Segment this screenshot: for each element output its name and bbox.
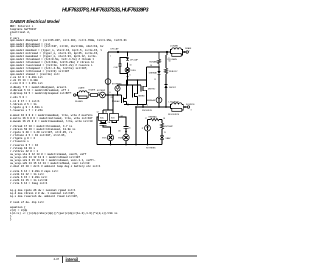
svg-text:9: 9 (89, 93, 90, 95)
svg-text:c.cin 6 8 = 1.05n isl: c.cin 6 8 = 1.05n isl (10, 81, 43, 85)
label EBREAK (147, 99, 156, 102)
diode DPLCAP (126, 58, 129, 61)
svg-text:17: 17 (145, 118, 147, 120)
wire bottom rail (97, 144, 162, 146)
label EGS (102, 138, 107, 140)
svg-text:16: 16 (150, 65, 152, 67)
label MMED (139, 95, 146, 97)
wire node16 to rdrain (147, 65, 160, 67)
svg-text:18: 18 (163, 118, 165, 120)
svg-text:EDS: EDS (118, 138, 123, 140)
svg-text:EBREAK: EBREAK (147, 99, 156, 102)
svg-text:DBODY: DBODY (169, 87, 177, 89)
label RVTEMP (165, 126, 174, 128)
label ESG (132, 70, 137, 72)
footer bar (62, 256, 64, 263)
svg-text:DPLCAP: DPLCAP (111, 48, 120, 51)
svg-text:RBREAK: RBREAK (149, 115, 158, 118)
diode DBREAK (157, 71, 160, 97)
svg-text:2: 2 (189, 51, 190, 53)
svg-text:10: 10 (130, 65, 132, 67)
wire S1B to CB (112, 117, 126, 127)
svg-text:11: 11 (154, 79, 156, 81)
op source ESG circle on left rail (105, 79, 111, 85)
svg-text:RVTEMP: RVTEMP (165, 126, 174, 128)
intersil logo (66, 257, 81, 262)
svg-text:spm.model dplcapmod = (isl=10f: spm.model dplcapmod = (isl=10f, nl=10, i… (10, 44, 104, 48)
node 5 junction dot (117, 51, 119, 53)
wire (165, 74, 167, 85)
label CGDMAX (114, 67, 119, 69)
svg-text:intersil: intersil (66, 257, 79, 262)
wire gate bus node6 upper (118, 84, 142, 86)
battery VBAT (160, 135, 164, 145)
node 15 (118, 128, 131, 133)
label LSOURCE (169, 101, 180, 103)
svg-text:1: 1 (110, 56, 111, 58)
wire node 7 rail (135, 106, 170, 108)
label RDBODY (169, 71, 178, 73)
switch S1A box (99, 114, 108, 121)
node 5 text (169, 58, 171, 63)
switch network: tee (103, 95, 113, 114)
svg-text:6: 6 (130, 75, 131, 77)
svg-text:15: 15 (129, 128, 131, 130)
diode DBODY (164, 85, 167, 108)
wire (98, 93, 100, 95)
svg-text:c.cds 5 8 =: c.cds 5 8 = (10, 95, 28, 99)
label VBAT (166, 137, 172, 140)
junction node 6 on branch (127, 75, 131, 78)
svg-text:RDRAIN: RDRAIN (149, 61, 157, 64)
svg-text:12: 12 (97, 112, 99, 114)
mosfet MSTRO (141, 67, 147, 105)
svg-text:r.rs1a 6 12 = 1meg isl=1: r.rs1a 6 12 = 1meg isl=1 (10, 181, 48, 185)
resistor RVTEMP (160, 120, 163, 135)
mosfet MMED (133, 80, 138, 105)
inductor LDRAIN / resistor RLDRAIN parallel (167, 48, 188, 57)
label DPLCAP (top) (111, 48, 120, 51)
svg-text:EGS: EGS (102, 138, 107, 140)
svg-text:ESG: ESG (132, 70, 137, 72)
label SOURCE terminal (186, 104, 195, 112)
dep source EBREAK circle (156, 97, 162, 107)
label RBREAK (149, 115, 158, 118)
svg-text:MSTRO: MSTRO (148, 88, 156, 90)
breakdown loop: top wire + resistor RBREAK (148, 118, 163, 120)
wire jog to node7 rail (142, 105, 144, 108)
wire dplcap branch (127, 51, 129, 85)
svg-text:SOURCE: SOURCE (186, 104, 195, 106)
svg-text:CGD: CGD (114, 67, 119, 69)
svg-text:21: 21 (111, 97, 113, 99)
svg-text:GATE: GATE (66, 92, 72, 95)
label RLGATE (75, 100, 84, 103)
svg-text:l.lsource s 7 = 2.24n: l.lsource s 7 = 2.24n (10, 108, 43, 112)
svg-text:L SOURCE: L SOURCE (169, 101, 180, 103)
svg-text:# isub of dw- dvp isl=: # isub of dw- dvp isl= (10, 200, 45, 204)
label MWEAK (111, 97, 121, 103)
svg-text:MMED: MMED (139, 95, 146, 97)
svg-text:LGATE: LGATE (78, 87, 85, 90)
label RVTHRES (146, 147, 156, 149)
svg-text:RSOURCE: RSOURCE (142, 110, 153, 112)
node 11 (154, 79, 156, 81)
svg-text:RLGATE: RLGATE (75, 100, 84, 103)
label DBODY (169, 87, 177, 89)
svg-text:L DRAIN: L DRAIN (170, 45, 178, 48)
resistor RDBODY zigzag (164, 68, 167, 74)
svg-text:HUF76337P3, HUF76337S3S, HUF76: HUF76337P3, HUF76337S3S, HUF76339P3 (62, 7, 149, 13)
current source IT (145, 120, 151, 145)
svg-text:spm.model dbodymod = (isl=65.8: spm.model dbodymod = (isl=65.82f, nl=1.2… (10, 38, 127, 42)
svg-text:r.rlsource s: r.rlsource s (10, 139, 29, 143)
inductor LGATE / resistor RLGATE parallel (78, 91, 89, 99)
svg-text:RDBODY: RDBODY (169, 71, 178, 73)
capacitor CA (100, 124, 111, 135)
svg-text:DPLCAP: DPLCAP (130, 59, 139, 62)
label EDS (118, 138, 123, 140)
label EVTEMP (97, 90, 106, 92)
svg-text:13: 13 (105, 112, 107, 114)
svg-text:electrical d,: electrical d, (10, 30, 30, 34)
label LGATE (78, 87, 85, 90)
svg-text:i(d->s) += ((v(dp)/abs(v(dp))): i(d->s) += ((v(dp)/abs(v(dp)))*(pwr(v(dp… (10, 211, 118, 215)
svg-text:6: 6 (110, 92, 111, 94)
svg-text:4-47: 4-47 (54, 257, 60, 261)
svg-text:d.dplcap 10 5 = model=dplcapmo: d.dplcap 10 5 = model=dplcapmod isl=1 (10, 91, 68, 95)
node labels 12 13 (97, 112, 123, 118)
page number (54, 257, 60, 261)
label DPLCAP diode (130, 59, 139, 62)
wire left rail (107, 52, 109, 110)
resistor RDRAIN zigzag (157, 52, 160, 67)
label DRAIN terminal (185, 47, 192, 53)
svg-text:VBAT: VBAT (166, 137, 172, 140)
wire left leg (97, 117, 99, 145)
svg-text:RLSOURCE: RLSOURCE (168, 114, 180, 116)
svg-text:m.mweak 16 21 8 8 = model=mwea: m.mweak 16 21 8 8 = model=mweakmod, l=1u… (10, 119, 93, 123)
wire mid drop (135, 107, 137, 145)
capacitor CGDMAX loop (119, 58, 128, 74)
wire source bus node 8 (124, 104, 147, 106)
label RLSOURCE (168, 114, 180, 116)
svg-text:RVTHRES: RVTHRES (146, 147, 156, 149)
inductor LSOURCE / resistor RLSOURCE parallel (171, 103, 190, 112)
label DBREAK (149, 72, 158, 75)
label IT (142, 128, 145, 130)
node 1 label (110, 56, 111, 58)
label MSTRO (148, 88, 156, 90)
wire below S1A to CA (101, 121, 106, 124)
dep source EVTHRES circle (115, 85, 120, 95)
dep source EVTEMP circle (100, 92, 106, 98)
wire gate lead (76, 94, 78, 96)
svg-text:EVTEMP: EVTEMP (97, 90, 106, 92)
node 19 (164, 132, 166, 134)
svg-text:iq.s dea rsourceh dw- ambient: iq.s dea rsourceh dw- ambient rload isl=… (10, 194, 79, 198)
wire top rail node 5 (108, 51, 167, 53)
mosfet MWEAK (122, 80, 127, 105)
node 17 18 (145, 118, 165, 120)
gate terminal (66, 92, 76, 97)
svg-text:7: 7 (147, 105, 148, 107)
svg-text:v.vbat 22 19 = dc=1 # ambient: v.vbat 22 19 = dc=1 # ambient temp deg c… (10, 164, 101, 168)
svg-text:RL DRAIN: RL DRAIN (168, 58, 178, 61)
dep source EGS circle (107, 134, 113, 144)
label RGATE (89, 89, 96, 92)
svg-text:DBREAK: DBREAK (149, 72, 158, 75)
dep source ESG circle (125, 68, 130, 73)
label EVTHRES (112, 83, 122, 85)
label RDRAIN (149, 61, 157, 64)
label RSOURCE (142, 105, 153, 112)
wire right rail (166, 51, 168, 68)
footer rule (16, 255, 197, 257)
svg-text:RGATE: RGATE (89, 89, 96, 92)
capacitor CB (124, 127, 129, 135)
label CA (108, 121, 111, 124)
wire drain bus node 16 (127, 79, 147, 81)
svg-text:SABER Electrical Model: SABER Electrical Model (10, 19, 60, 24)
resistor RGATE (91, 94, 98, 97)
dep source EDS circle (123, 134, 129, 144)
label RLDRAIN (168, 58, 178, 61)
label LDRAIN (170, 45, 178, 48)
wire gate bus to rail (105, 94, 121, 96)
wire (89, 93, 91, 95)
switch S1B box (110, 114, 119, 121)
svg-text:3: 3 (191, 110, 192, 112)
node 10 (130, 65, 132, 67)
wire (158, 66, 160, 71)
node 6 label (110, 92, 111, 94)
svg-text:19: 19 (164, 132, 166, 134)
